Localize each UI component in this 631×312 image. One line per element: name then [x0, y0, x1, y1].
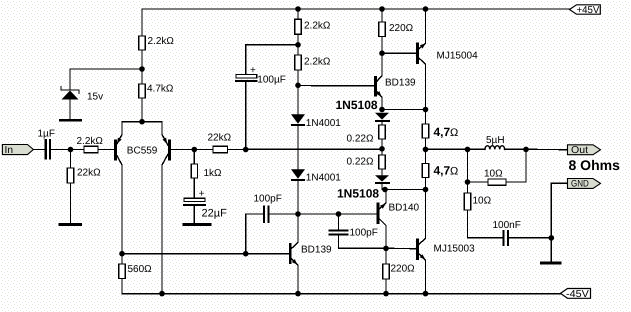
resistor R9 220 top	[379, 9, 414, 53]
wire R6 to node D	[228, 149, 246, 151]
wire feedback row node 560	[122, 253, 289, 255]
node S junction (425.5,149.4)	[423, 147, 429, 153]
resistor R6 22k mid	[208, 133, 232, 153]
zener diode D1 15v	[61, 69, 103, 119]
node G junction (298,85.3)	[295, 83, 301, 89]
wire node H to node J	[298, 213, 339, 215]
wire GND flag to ground	[551, 183, 567, 261]
svg-text:BD139: BD139	[301, 245, 332, 256]
diode D5 1N5108	[337, 175, 390, 200]
wire node C to R6	[194, 149, 213, 151]
svg-text:2.2kΩ: 2.2kΩ	[304, 21, 331, 32]
node rail junction x425	[423, 291, 429, 297]
transistor Q3 BD139 upper	[375, 53, 416, 109]
node I junction (245.7,253.7)	[243, 251, 249, 257]
svg-text:15v: 15v	[87, 92, 103, 103]
svg-text:4.7kΩ: 4.7kΩ	[147, 84, 174, 95]
node A junction (142,69)	[139, 66, 145, 72]
svg-text:1N4001: 1N4001	[306, 118, 341, 129]
svg-text:10Ω: 10Ω	[473, 196, 492, 207]
resistor R5 1k	[191, 150, 222, 201]
wire node U to Out flag	[526, 148, 568, 150]
node D junction (245.7,149.5)	[243, 147, 249, 153]
transistor Q1 BC559 left	[115, 122, 157, 254]
node emitter bus junction	[139, 119, 145, 125]
svg-text:220Ω: 220Ω	[391, 264, 416, 275]
node N junction (382,109.5)	[379, 107, 385, 113]
node top rail junction x425	[423, 6, 429, 12]
wire C5 bottom to node K	[339, 235, 387, 248]
diode D3 1N4001	[291, 169, 341, 184]
capacitor C3 100uF electrolytic	[236, 65, 286, 150]
svg-text:1µF: 1µF	[38, 129, 55, 140]
wire In to C1	[33, 149, 44, 151]
node O junction (425.5,109.5)	[423, 107, 429, 113]
transistor Q5 BD140	[378, 190, 420, 249]
resistor R4 22k input	[67, 150, 101, 224]
transistor Q2 BC559 right	[162, 122, 170, 294]
svg-text:In: In	[5, 145, 14, 156]
wire D5 to node Q	[381, 184, 383, 190]
svg-text:0.22Ω: 0.22Ω	[347, 157, 374, 168]
diode D2 1N4001	[291, 114, 341, 129]
svg-text:1N4001: 1N4001	[306, 173, 341, 184]
resistor R16 10 horizontal	[468, 149, 527, 185]
wire node J to Q5 base	[339, 213, 377, 215]
diode D4 1N5108	[336, 98, 391, 122]
transistor Q4 BD139 lower	[290, 214, 332, 294]
svg-text:8 Ohms: 8 Ohms	[569, 157, 621, 173]
power flag +45V	[570, 5, 601, 16]
svg-text:22µF: 22µF	[202, 208, 228, 220]
svg-text:-45V: -45V	[566, 289, 589, 300]
resistor R13 4.7	[422, 149, 458, 189]
wire R1 bottom to node A	[141, 50, 143, 69]
wire node N to node O	[382, 109, 426, 111]
node H junction (298,214)	[295, 211, 301, 217]
transistor Q7 MJ15003	[386, 190, 475, 294]
capacitor C1 1uF	[38, 129, 55, 159]
inductor L1 5uH	[468, 135, 527, 150]
ground bar output	[540, 261, 562, 264]
wire +45V top rail	[142, 9, 570, 36]
svg-text:5µH: 5µH	[486, 135, 505, 146]
svg-text:2.2kΩ: 2.2kΩ	[304, 57, 331, 68]
wire Q2 base to node C	[171, 149, 194, 151]
resistor R17 10 vertical	[464, 182, 491, 238]
resistor R11 0.22	[347, 149, 386, 175]
wire D3 to node H	[297, 181, 299, 214]
wire node G down to D2	[297, 85, 299, 114]
ground bar under zener	[59, 119, 82, 122]
svg-text:+: +	[250, 65, 256, 76]
svg-text:220Ω: 220Ω	[389, 23, 414, 34]
wire C1 to node B	[51, 149, 71, 151]
node V junction (467.5,182)	[465, 179, 471, 185]
wire node A to zener	[70, 68, 142, 70]
wire C3 top to node F	[246, 45, 298, 75]
svg-text:GND: GND	[571, 179, 589, 190]
node J junction (338.5,214)	[336, 211, 342, 217]
svg-text:Ω: Ω	[450, 166, 458, 178]
svg-text:560Ω: 560Ω	[128, 264, 153, 275]
power flag -45V	[561, 289, 591, 300]
transistor Q6 MJ15004	[418, 9, 478, 110]
capacitor C5 100pF	[330, 214, 378, 239]
wire mid row node D to node E	[246, 148, 382, 150]
wire R3 to Q1 base	[98, 149, 114, 151]
node Q junction (385,189.5)	[382, 187, 388, 193]
node top rail junction x298	[295, 6, 301, 12]
resistor R3 2.2k input	[77, 136, 104, 153]
svg-text:1N5108: 1N5108	[337, 187, 379, 201]
node W junction (551.3,237.9)	[549, 235, 555, 241]
node F junction (298,44.8)	[295, 42, 301, 48]
svg-text:22kΩ: 22kΩ	[208, 133, 232, 144]
node P junction (382,148.8)	[379, 146, 385, 152]
node rail junction x162	[159, 291, 165, 297]
node U junction (526,149.4)	[523, 147, 529, 153]
wire -45V bottom rail	[122, 293, 561, 295]
ground flag GND	[568, 179, 601, 190]
wire node B to R3	[71, 149, 85, 151]
resistor R1 2.2k	[139, 36, 175, 50]
capacitor C2 22uF electrolytic	[184, 189, 227, 224]
svg-text:100pF: 100pF	[254, 194, 282, 205]
svg-text:MJ15003: MJ15003	[434, 244, 476, 255]
output flag Out	[568, 145, 601, 156]
resistor R7 2.2k chain top	[295, 9, 331, 45]
svg-text:22kΩ: 22kΩ	[77, 168, 101, 179]
svg-text:100nF: 100nF	[493, 220, 521, 231]
node top rail junction x382	[379, 6, 385, 12]
wire C4 left corner down to node I	[245, 214, 247, 254]
resistor R2 4.7k	[139, 84, 174, 99]
node rail junction x298	[295, 291, 301, 297]
node rail junction x386	[383, 291, 389, 297]
wire node M to Q6 base	[382, 52, 416, 54]
capacitor C6 100nF	[468, 220, 552, 245]
svg-text:Out: Out	[571, 145, 588, 156]
resistor R12 4.7	[422, 110, 458, 150]
capacitor C4 100pF	[246, 194, 298, 223]
resistor R8 2.2k chain second	[295, 45, 331, 86]
resistor R14 560	[119, 254, 152, 294]
node R junction (425.5,189.5)	[423, 187, 429, 193]
svg-text:100pF: 100pF	[350, 228, 378, 239]
svg-text:BD139: BD139	[385, 78, 416, 89]
svg-text:BC559: BC559	[127, 146, 158, 157]
svg-text:Ω: Ω	[450, 127, 458, 139]
svg-text:1N5108: 1N5108	[336, 98, 378, 112]
node K junction (386,248.4)	[383, 246, 389, 252]
wire R2 to emitter bus	[141, 98, 143, 122]
svg-text:100µF: 100µF	[257, 75, 286, 86]
node M junction (382,53.2)	[379, 50, 385, 56]
input flag In	[2, 145, 33, 157]
ground bar under R4	[59, 223, 83, 226]
wire mid row node S to output node	[426, 148, 468, 150]
svg-text:0.22Ω: 0.22Ω	[347, 134, 374, 145]
svg-text:10Ω: 10Ω	[484, 169, 503, 180]
svg-text:4,7: 4,7	[434, 164, 451, 178]
wire emitter bus	[122, 121, 162, 123]
resistor R10 0.22	[347, 122, 386, 149]
wire D2 to D3	[297, 126, 299, 169]
node C junction (194.3,149.5)	[192, 147, 198, 153]
svg-text:BD140: BD140	[389, 203, 420, 214]
svg-text:2.2kΩ: 2.2kΩ	[148, 36, 175, 47]
svg-text:+45V: +45V	[577, 5, 600, 16]
wire node T down to 10R row	[467, 149, 469, 182]
svg-text:4,7: 4,7	[434, 125, 451, 139]
node T output junction (467.5,149.4)	[465, 147, 471, 153]
wire node Q row	[382, 189, 426, 191]
svg-text:MJ15004: MJ15004	[437, 51, 479, 62]
svg-text:2.2kΩ: 2.2kΩ	[77, 136, 104, 147]
resistor R15 220 bottom	[383, 248, 415, 293]
wire node G to Q3 base	[298, 85, 374, 87]
node B junction (70.5,149.5)	[68, 147, 74, 153]
ground bar under C2	[183, 223, 212, 226]
svg-text:1kΩ: 1kΩ	[204, 168, 223, 179]
wire node A to R2	[141, 69, 143, 84]
node L junction (122,253.7)	[119, 251, 125, 257]
